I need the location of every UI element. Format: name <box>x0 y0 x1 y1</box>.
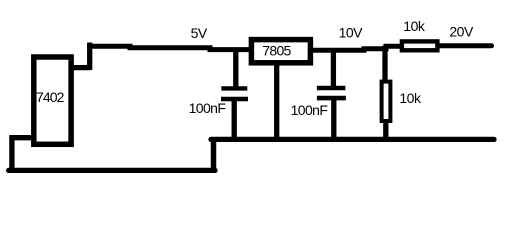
resistor R1 10k horizontal <box>402 41 438 50</box>
wire 7402 ground stub <box>12 138 33 169</box>
wire 7805 output to 10V node <box>312 46 401 50</box>
node 20V label <box>449 24 474 40</box>
svg-text:10k: 10k <box>403 18 426 34</box>
capacitor C2 100nF <box>317 88 346 140</box>
svg-text:5V: 5V <box>191 25 208 41</box>
value label R2 10k <box>399 90 422 106</box>
svg-text:7805: 7805 <box>262 43 291 59</box>
value label C1 100nF <box>189 100 226 116</box>
wire ground rail step <box>211 137 217 171</box>
svg-text:100nF: 100nF <box>189 100 226 116</box>
svg-text:10k: 10k <box>399 90 422 106</box>
wire ground rail left section <box>9 168 215 173</box>
value label C2 100nF <box>291 102 328 118</box>
wire junction down to C1 <box>233 48 238 88</box>
regulator U2 7805 <box>251 40 310 63</box>
wire 7402 output stub to 5V rail <box>71 43 90 71</box>
wire junction down to C2 <box>331 48 336 87</box>
svg-text:7402: 7402 <box>36 89 65 105</box>
svg-text:20V: 20V <box>449 24 474 40</box>
node 5V label <box>191 25 208 41</box>
wire ground rail right section <box>211 137 494 142</box>
svg-text:100nF: 100nF <box>291 102 328 118</box>
wire 7805 ground pin <box>274 63 279 140</box>
wire 5V top rail <box>87 46 250 49</box>
wire R1 to 20V terminal <box>439 43 492 48</box>
wire junction down to R2 <box>382 46 387 82</box>
resistor R2 10k vertical <box>382 82 391 141</box>
svg-text:10V: 10V <box>339 25 364 41</box>
IC U1 7402 <box>34 57 71 144</box>
node 10V label <box>339 25 364 41</box>
capacitor C1 100nF <box>221 88 248 140</box>
value label R1 10k <box>403 18 426 34</box>
